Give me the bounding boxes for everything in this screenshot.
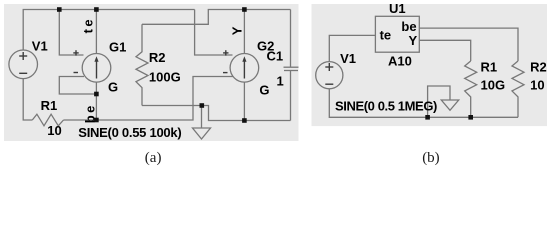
svg-text:R1: R1 — [481, 59, 498, 74]
junction dot top rail G2 — [242, 7, 247, 12]
panel (b) background — [312, 4, 548, 126]
V1b plus — [325, 66, 333, 68]
wire Y pin to R1b — [419, 40, 470, 61]
wire R2 top and jog — [142, 10, 291, 25]
resistor R2b — [512, 61, 524, 117]
ground a stub — [201, 106, 203, 129]
source V1a circle — [9, 50, 38, 79]
G1 plus — [73, 52, 78, 54]
G1 arrow head — [94, 56, 98, 62]
svg-text:Y: Y — [409, 33, 418, 48]
resistor R2 — [136, 24, 148, 105]
source G1 circle — [82, 54, 111, 83]
svg-text:(a): (a) — [145, 150, 162, 166]
wire G1 bottom — [95, 82, 97, 120]
svg-text:C1: C1 — [267, 49, 284, 64]
svg-text:1: 1 — [277, 74, 284, 89]
resistor R1 zigzag — [32, 114, 63, 126]
capacitor C1 plates — [284, 66, 299, 68]
junction dot be — [94, 118, 99, 123]
svg-text:10: 10 — [530, 78, 544, 93]
wire G2 vertical top — [243, 10, 245, 54]
svg-text:10G: 10G — [481, 78, 506, 93]
svg-text:G1: G1 — [109, 39, 126, 54]
svg-text:(b): (b) — [422, 150, 440, 166]
svg-text:V1: V1 — [32, 39, 48, 54]
G2 arrow shaft — [243, 60, 245, 79]
svg-text:be: be — [401, 19, 416, 34]
junction dot minus return — [94, 92, 99, 97]
junction dot G2 bottom — [242, 118, 247, 123]
svg-text:be: be — [82, 103, 97, 123]
svg-text:10: 10 — [47, 123, 61, 138]
G1 arrow shaft — [96, 60, 98, 79]
wire V1a top stub — [23, 10, 194, 51]
G2 minus — [223, 72, 228, 74]
junction dot R1b bottom — [468, 115, 473, 120]
source V1b circle — [316, 62, 343, 89]
svg-text:G: G — [108, 80, 118, 95]
G1 minus — [74, 72, 79, 74]
svg-text:R2: R2 — [149, 50, 166, 65]
junction dot ground b — [425, 115, 430, 120]
wire V1a bottom — [23, 79, 32, 120]
svg-text:te: te — [81, 17, 96, 34]
G2 arrow head — [242, 56, 246, 62]
wire G2 plus feed — [195, 10, 233, 56]
U1 box — [375, 16, 419, 52]
svg-text:Y: Y — [229, 26, 244, 35]
source G2 circle — [230, 54, 259, 83]
wire G2 vertical bottom — [243, 82, 245, 121]
svg-text:100G: 100G — [149, 70, 181, 85]
wire right rail — [290, 10, 292, 68]
svg-text:R2: R2 — [530, 59, 547, 74]
svg-text:U1: U1 — [389, 1, 406, 16]
ground a triangle — [193, 128, 211, 139]
ground b wires — [428, 86, 450, 117]
junction dot top rail G1 plus — [57, 7, 62, 12]
V1a plus — [19, 55, 27, 57]
wire te vertical — [95, 10, 97, 54]
resistor R1b — [465, 61, 477, 117]
wire bottom rail left — [64, 77, 234, 121]
svg-text:te: te — [380, 28, 392, 43]
svg-text:V1: V1 — [340, 51, 356, 66]
svg-text:G: G — [259, 83, 269, 98]
junction dot ground a — [200, 103, 205, 108]
wire R2 bottom to right rail — [142, 106, 291, 121]
wire V1b top to te pin — [329, 35, 375, 61]
wire drop to G1 plus — [59, 10, 83, 56]
panel (a) background — [4, 4, 299, 141]
svg-text:SINE(0 0.55 100k): SINE(0 0.55 100k) — [78, 125, 181, 140]
G2 plus — [223, 52, 228, 54]
svg-text:A10: A10 — [388, 54, 412, 69]
svg-text:SINE(0 0.5 1MEG): SINE(0 0.5 1MEG) — [335, 98, 437, 113]
wire G1 minus return — [59, 77, 96, 95]
wire V1b bottom rail — [329, 89, 518, 117]
V1a minus — [19, 72, 27, 74]
svg-text:R1: R1 — [41, 98, 58, 113]
ground b triangle — [441, 100, 458, 110]
wire be pin to R2b — [419, 28, 518, 61]
junction dot top rail te — [94, 7, 99, 12]
V1b minus — [325, 83, 333, 85]
